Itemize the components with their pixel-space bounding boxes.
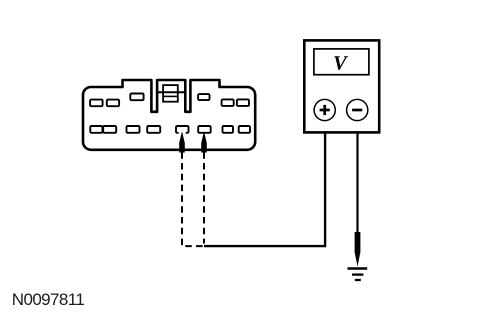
pin T1 <box>90 100 103 107</box>
connector body outline <box>83 80 255 150</box>
pin B8 <box>239 126 250 133</box>
voltmeter V label <box>334 56 348 70</box>
probe arrow 2 (up, into pin B6) <box>201 131 207 152</box>
pin T6 <box>237 99 249 106</box>
figure number label <box>12 290 84 310</box>
wire from voltmeter - to ground <box>356 121 358 233</box>
ground bar 2 <box>352 273 363 275</box>
probe arrow 1 (up, into pin B5) <box>179 131 185 152</box>
voltmeter U1 box <box>304 40 379 132</box>
ground bar 1 <box>348 267 368 270</box>
connector latch cross line <box>157 91 185 93</box>
dashed test lead 2 <box>203 152 205 243</box>
pin B4 <box>147 126 160 133</box>
voltmeter display <box>314 49 369 75</box>
pin B7 <box>223 126 234 133</box>
pin B5 bottom notch <box>179 131 186 134</box>
pin B3 <box>127 126 140 133</box>
voltmeter - terminal <box>347 99 368 120</box>
ground arrow (down) <box>355 232 361 267</box>
pin B5 (probed) <box>176 126 189 133</box>
pin B2 <box>103 126 116 133</box>
pin T4 (raised) <box>198 94 209 100</box>
pin B6 (probed) <box>198 126 211 133</box>
pin T5 <box>222 99 234 106</box>
pin B1 <box>90 126 102 133</box>
pin T3 (raised) <box>130 94 143 101</box>
connector latch inner line <box>163 95 178 97</box>
ground bar 3 <box>355 279 361 281</box>
voltmeter + terminal <box>314 99 335 120</box>
connector latch box <box>163 85 178 102</box>
pin T2 <box>107 100 119 107</box>
dashed test lead 1 <box>182 152 204 246</box>
wire to voltmeter + <box>204 121 325 246</box>
